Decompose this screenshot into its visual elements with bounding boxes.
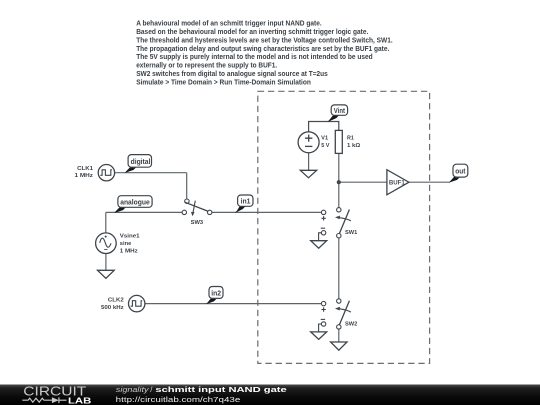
resistor R1	[335, 130, 342, 153]
svg-text:Vsine1: Vsine1	[120, 234, 140, 240]
ground (Vsine1)	[98, 270, 115, 278]
svg-text:Simulate > Time Domain > Run T: Simulate > Time Domain > Run Time-Domain…	[136, 77, 311, 86]
svg-text:digital: digital	[131, 159, 151, 166]
svg-text:SW3: SW3	[191, 220, 204, 226]
svg-text:R1: R1	[347, 136, 354, 142]
switch SW3 (SPDT)	[182, 199, 212, 216]
wire V1 bottom to ground	[308, 153, 310, 170]
logo resistor zigzag + diode glyph	[22, 397, 66, 403]
svg-text:in1: in1	[241, 199, 251, 206]
svg-text:1 MHz: 1 MHz	[75, 173, 94, 179]
svg-text:analogue: analogue	[120, 199, 150, 206]
svg-text:1 kΩ: 1 kΩ	[347, 143, 361, 149]
CircuitLab logo wordmark	[22, 383, 91, 405]
net flag in2	[206, 287, 223, 305]
wire SW3 common to SW1 plus (net in1)	[212, 211, 322, 213]
svg-text:V1: V1	[321, 136, 328, 142]
svg-text:BUF1: BUF1	[389, 179, 406, 186]
svg-text:schmitt input NAND gate: schmitt input NAND gate	[155, 385, 287, 394]
wire SW1 bottom to SW2 top	[338, 238, 340, 299]
dashed model boundary box	[258, 91, 430, 363]
svg-text:CLK2: CLK2	[108, 298, 124, 304]
wire CLK1 to corner	[115, 172, 187, 174]
svg-text:SW1: SW1	[345, 230, 357, 236]
svg-text:5 V: 5 V	[321, 143, 329, 149]
net flag analogue	[114, 196, 152, 213]
svg-text:in2: in2	[211, 290, 221, 297]
wire junction to BUF1 input	[339, 181, 387, 183]
switch SW1 (voltage controlled)	[311, 208, 351, 249]
junction dot at R1/BUF1 node	[337, 180, 341, 184]
svg-text:SW2: SW2	[345, 321, 357, 327]
svg-text:CLK1: CLK1	[77, 166, 93, 172]
svg-text:LAB: LAB	[68, 396, 92, 405]
net flag in1	[235, 195, 253, 213]
net flag out	[449, 164, 468, 183]
svg-text:Vint: Vint	[334, 108, 346, 115]
sine source Vsine1	[96, 233, 117, 254]
wire Vsine1 bottom to ground	[105, 254, 107, 271]
wire analogue horizontal to SW3	[106, 211, 182, 213]
ground (V1)	[300, 170, 316, 178]
wire V1 top to R1 top (net Vint)	[309, 122, 339, 132]
wire CLK2 to SW2 plus (net in2)	[145, 303, 322, 305]
clock source CLK2	[129, 295, 145, 311]
net flag Vint	[327, 105, 347, 122]
wire analogue vertical to Vsine1	[105, 212, 107, 233]
voltage source V1	[298, 132, 319, 153]
svg-text:sine: sine	[120, 241, 132, 247]
net flag digital	[125, 155, 152, 173]
wire corner down to SW3 throw1	[186, 173, 188, 199]
switch SW2 (voltage controlled)	[311, 299, 351, 340]
svg-text:1 MHz: 1 MHz	[120, 249, 138, 255]
ground (SW2 output)	[331, 342, 347, 350]
wire SW2 bottom to ground	[338, 329, 340, 342]
svg-text:signality: signality	[116, 385, 150, 394]
description text block	[136, 19, 393, 87]
svg-text:500 kHz: 500 kHz	[101, 305, 124, 311]
clock source CLK1	[98, 165, 114, 181]
svg-text:out: out	[455, 169, 466, 176]
wire R1 bottom to SW1	[338, 153, 340, 207]
buffer BUF1	[387, 170, 409, 195]
svg-text:http://circuitlab.com/ch7q43e: http://circuitlab.com/ch7q43e	[116, 395, 241, 404]
wire BUF1 output to out label	[409, 181, 450, 183]
